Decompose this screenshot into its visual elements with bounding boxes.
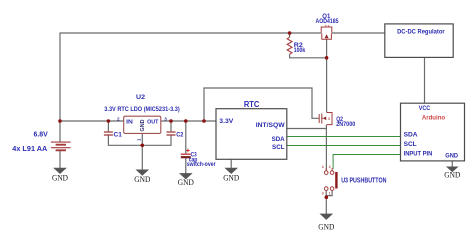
capacitor C1 bbox=[104, 132, 113, 135]
wire cap ground rail bbox=[108, 136, 171, 146]
svg-text:SDA: SDA bbox=[404, 132, 418, 139]
op-amp U2 LDO box MIC5231 bbox=[124, 116, 161, 133]
RTC box bbox=[216, 109, 287, 160]
svg-text:SCL: SCL bbox=[404, 141, 417, 148]
wire DC-DC out down to Arduino VCC bbox=[424, 57, 426, 103]
svg-text:IN: IN bbox=[126, 119, 133, 125]
wire R2 bottom to Q1 gate node bbox=[290, 54, 327, 58]
wire top 6.8V rail bbox=[60, 32, 321, 34]
svg-text:OUT: OUT bbox=[147, 119, 159, 125]
wire RTC INT/SQW to Q2 source bbox=[287, 128, 327, 130]
node junction 3.3V riser bbox=[202, 119, 206, 123]
wire INPUT PIN green to pushbutton bbox=[333, 155, 401, 170]
svg-text:Arduino: Arduino bbox=[422, 115, 445, 122]
svg-text:GND: GND bbox=[140, 119, 146, 131]
svg-text:2: 2 bbox=[329, 165, 331, 169]
wire C3 top lead bbox=[185, 121, 187, 154]
node junction LDO GND bbox=[141, 144, 145, 148]
pushbutton U3 bbox=[324, 168, 334, 190]
wire Q1 gate down to Q2 drain bbox=[326, 40, 328, 113]
node junction C2 top bbox=[169, 119, 173, 123]
wire 3.3V bus LDO OUT to RTC bbox=[161, 120, 216, 122]
node junction 6.8V battery tap bbox=[58, 119, 62, 123]
svg-text:SCL: SCL bbox=[272, 144, 285, 151]
svg-text:C1: C1 bbox=[114, 133, 123, 139]
wire 3.3V riser to Q2 gate bbox=[204, 88, 319, 121]
ground Arduino bbox=[444, 167, 460, 180]
svg-text:GND: GND bbox=[318, 222, 334, 232]
node junction Q1 gate bbox=[325, 56, 329, 60]
svg-text:3.3V: 3.3V bbox=[219, 118, 233, 125]
capacitor C2 bbox=[167, 132, 176, 135]
svg-text:GND: GND bbox=[445, 152, 458, 159]
svg-text:C2: C2 bbox=[176, 133, 184, 139]
node junction C3 top bbox=[184, 119, 188, 123]
svg-text:4: 4 bbox=[322, 165, 324, 169]
svg-text:GND: GND bbox=[444, 169, 460, 179]
wire LDO GND stem bbox=[141, 133, 143, 170]
svg-text:VCC: VCC bbox=[419, 105, 431, 112]
svg-text:3: 3 bbox=[322, 192, 324, 196]
wire SDA green bbox=[287, 136, 401, 138]
svg-text:100k: 100k bbox=[294, 48, 306, 54]
ground C3 bbox=[178, 174, 194, 188]
svg-text:SDA: SDA bbox=[272, 136, 285, 143]
pushbutton actuator bar bbox=[335, 172, 337, 189]
svg-text:GND: GND bbox=[134, 174, 150, 184]
DC-DC Regulator box bbox=[385, 24, 453, 58]
svg-text:GND: GND bbox=[52, 172, 68, 182]
wire C3 bottom to GND bbox=[185, 158, 187, 174]
wire Q2 source down to pushbutton bbox=[325, 125, 327, 170]
svg-text:U3 PUSHBUTTON: U3 PUSHBUTTON bbox=[341, 178, 386, 185]
wire battery bottom to GND bbox=[59, 151, 61, 169]
svg-text:GND: GND bbox=[223, 172, 239, 182]
wire 6.8V bus to LDO IN bbox=[60, 120, 124, 122]
svg-text:6.8V: 6.8V bbox=[34, 132, 49, 139]
wire Arduino GND stem bbox=[451, 161, 453, 167]
wire RTC GND stem bbox=[230, 159, 232, 168]
svg-text:1: 1 bbox=[329, 192, 331, 196]
svg-text:RTC: RTC bbox=[244, 99, 260, 109]
transistor Q1 AOD4185 bbox=[321, 27, 332, 39]
wire pushbutton bottom pins to GND bbox=[326, 191, 332, 215]
node junction pushbutton GND bbox=[325, 195, 329, 199]
wire left vertical to battery bbox=[59, 33, 61, 142]
svg-text:GND: GND bbox=[178, 177, 194, 187]
wire C1 top lead bbox=[107, 121, 109, 131]
svg-text:DC-DC Regulator: DC-DC Regulator bbox=[397, 29, 445, 36]
node junction C1 top bbox=[107, 119, 111, 123]
wire Q1 drain to DC-DC bbox=[332, 32, 385, 34]
wire SCL green bbox=[287, 145, 401, 147]
plus sign C3 bbox=[186, 149, 190, 153]
svg-text:U2: U2 bbox=[136, 95, 146, 101]
svg-text:3.3V RTC LDO (MIC5231-3.3): 3.3V RTC LDO (MIC5231-3.3) bbox=[104, 107, 179, 113]
wire C2 top lead bbox=[170, 121, 172, 131]
svg-text:AOD4185: AOD4185 bbox=[316, 19, 339, 25]
svg-text:switch-over: switch-over bbox=[187, 162, 216, 168]
svg-text:3: 3 bbox=[328, 117, 330, 121]
capacitor C3 polarized bbox=[181, 153, 191, 155]
wire R2 top lead bbox=[289, 33, 291, 37]
ground battery bbox=[52, 168, 68, 182]
node junction R2 top bbox=[288, 31, 292, 35]
battery BAT 4x L91 AA bbox=[51, 142, 71, 150]
ground RTC bbox=[223, 168, 239, 182]
resistor R2 bbox=[287, 37, 292, 54]
transistor Q2 2N7000 bbox=[319, 113, 332, 125]
svg-text:2: 2 bbox=[117, 116, 120, 121]
ground LDO bbox=[134, 170, 150, 184]
ground pushbutton bbox=[318, 214, 334, 232]
svg-text:2N7000: 2N7000 bbox=[336, 122, 356, 128]
Arduino box U1 bbox=[401, 103, 465, 161]
svg-text:3: 3 bbox=[164, 116, 167, 121]
svg-text:1: 1 bbox=[136, 138, 141, 141]
svg-text:4x L91 AA: 4x L91 AA bbox=[12, 146, 47, 153]
svg-text:INT/SQW: INT/SQW bbox=[256, 122, 285, 129]
svg-text:INPUT PIN: INPUT PIN bbox=[404, 150, 433, 157]
